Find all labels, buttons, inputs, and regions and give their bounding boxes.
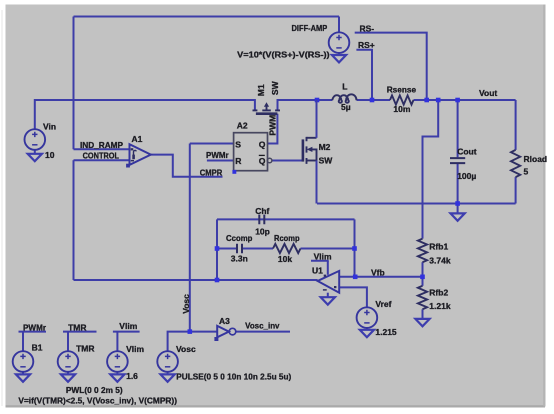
svg-text:5: 5 — [524, 166, 529, 176]
wire: Cout to ground rail — [457, 164, 459, 204]
svg-text:10: 10 — [45, 150, 55, 160]
wire: Rcomp to comp right vertical — [301, 248, 355, 250]
wire: Rfb2 to ground — [422, 309, 424, 318]
svg-text:5µ: 5µ — [341, 102, 351, 112]
inductor L — [332, 94, 356, 102]
svg-text:10k: 10k — [278, 254, 292, 264]
svg-text:SW: SW — [319, 156, 334, 166]
svg-text:PULSE(0 5 0 10n 10n 2.5u 5u): PULSE(0 5 0 10n 10n 2.5u 5u) — [176, 372, 291, 382]
svg-text:CONTROL: CONTROL — [83, 151, 119, 161]
ground below Vosc source — [161, 374, 175, 381]
svg-text:Cout: Cout — [457, 147, 477, 157]
wire: DIFF-AMP output top rail — [74, 16, 340, 18]
wire: A2 Qbar output to M2 gate — [272, 160, 303, 162]
wire: comp network left vertical — [216, 219, 218, 280]
wire: Vosc long vertical net — [189, 144, 191, 332]
wire: A3 output Vosc_inv stub — [236, 331, 290, 333]
svg-text:Vfb: Vfb — [371, 267, 385, 277]
ground below B1 — [16, 374, 30, 381]
ground below Rfb2 — [415, 319, 429, 326]
wire: U1 ground stem — [327, 293, 329, 297]
voltage source TMR — [58, 351, 79, 372]
svg-text:Vlim: Vlim — [119, 321, 137, 331]
svg-text:Rcomp: Rcomp — [274, 233, 300, 243]
svg-text:10p: 10p — [255, 227, 270, 237]
ground below U1 — [321, 297, 335, 304]
svg-text:10m: 10m — [393, 104, 410, 114]
svg-text:Vref: Vref — [375, 299, 391, 309]
wire: PWMr net stub above B1 — [19, 331, 47, 333]
svg-text:RS-: RS- — [360, 23, 375, 33]
junction: Vout sense tap — [436, 98, 441, 103]
wire: CONTROL input to A1 — [74, 159, 130, 161]
resistor Rload — [511, 150, 520, 177]
svg-text:IND_RAMP: IND_RAMP — [80, 140, 123, 150]
wire: Ccomp to Rcomp — [242, 248, 273, 250]
svg-text:B1: B1 — [32, 342, 43, 352]
svg-text:V=10*(V(RS+)-V(RS-)): V=10*(V(RS+)-V(RS-)) — [237, 51, 330, 60]
junction: comp to U1 output — [215, 278, 220, 283]
wire: power-stage ground rail — [317, 203, 516, 205]
svg-text:Ccomp: Ccomp — [226, 233, 252, 243]
wire: IND_RAMP input to A1 — [74, 148, 130, 150]
wire: U1 -input to Vref — [339, 287, 367, 307]
ground below TMR source — [61, 374, 75, 381]
svg-text:A3: A3 — [219, 316, 230, 326]
junction: Vfb divider node — [420, 275, 425, 280]
junction: comp right node — [352, 246, 357, 251]
svg-text:RS+: RS+ — [358, 40, 375, 50]
wire: Vref bottom stub — [366, 328, 368, 330]
voltage source Vin — [25, 129, 46, 150]
svg-text:SW: SW — [270, 80, 280, 95]
wire: Vfb node to Rfb2 — [422, 277, 424, 286]
svg-text:100µ: 100µ — [457, 171, 476, 181]
voltage source Vlim — [107, 351, 128, 372]
wire: left vertical to IND_RAMP — [73, 17, 75, 150]
svg-text:Vin: Vin — [43, 121, 56, 131]
wire: Vosc source bottom stub — [167, 372, 169, 374]
wire: ground rail stub to ground symbol — [457, 204, 459, 214]
svg-text:M2: M2 — [319, 142, 331, 152]
svg-text:1.215: 1.215 — [375, 327, 397, 337]
wire: TMR net stub — [63, 331, 97, 333]
ground below Vin — [28, 154, 42, 161]
svg-text:1.6: 1.6 — [126, 371, 138, 381]
wire: M1 source pin — [277, 99, 279, 110]
junction: Vosc net tap — [188, 329, 193, 334]
svg-text:A1: A1 — [132, 134, 143, 144]
wire: Vlim stub down to U1 top — [327, 261, 329, 275]
svg-text:Vout: Vout — [479, 88, 497, 98]
wire: Vosc source to A3 input — [168, 332, 218, 351]
wire: B1 top pin — [22, 332, 24, 351]
svg-text:PWL(0 0 2m 5): PWL(0 0 2m 5) — [66, 385, 123, 395]
op-amp A1 — [130, 144, 151, 165]
svg-text:R: R — [235, 156, 242, 166]
resistor Rfb2 — [418, 286, 427, 310]
voltage source DIFF-AMP E1 — [329, 32, 350, 53]
svg-text:Rfb2: Rfb2 — [429, 287, 448, 297]
ground below Vlim source — [110, 374, 124, 381]
junction: ground rail — [455, 201, 460, 206]
wire: Vout down to Cout — [457, 100, 459, 157]
junction: M2 drain on rail — [315, 98, 320, 103]
svg-text:Vosc_inv: Vosc_inv — [245, 321, 280, 331]
behavioral source B1 — [13, 351, 34, 372]
resistor Rsense — [390, 95, 414, 104]
wire: Rload to ground rail — [515, 177, 517, 203]
junction: Rsense/RS- node — [424, 98, 429, 103]
svg-text:Vosc: Vosc — [181, 294, 191, 314]
svg-text:Vlim: Vlim — [126, 344, 144, 354]
svg-text:CMPR: CMPR — [200, 167, 223, 177]
svg-text:Rsense: Rsense — [387, 84, 417, 94]
voltage source Vref — [357, 307, 378, 328]
wire: Vlim net stub — [113, 331, 140, 333]
wire: RS+ net stub down to L/Rsense node — [356, 50, 372, 100]
wire: PWMr net stub to A2 R input — [207, 160, 234, 162]
wire: Rfb1 to Vfb node — [422, 262, 424, 277]
svg-text:S: S — [235, 140, 241, 150]
op-amp U1 — [318, 271, 340, 293]
wire: Vin to M1 drain rail — [35, 100, 255, 129]
wire: Vin bottom stub — [34, 150, 36, 154]
wire: Vosc to A2 S input — [190, 143, 234, 145]
wire: DIFF-AMP top pin — [338, 17, 340, 33]
svg-text:1.21k: 1.21k — [429, 301, 451, 311]
capacitor Cout — [450, 158, 465, 163]
svg-text:Chf: Chf — [255, 206, 269, 216]
capacitor Ccomp — [237, 244, 242, 254]
wire: Vlim source top pin — [116, 332, 118, 351]
svg-text:TMR: TMR — [76, 343, 94, 353]
svg-text:PWM: PWM — [268, 115, 278, 136]
svg-text:Rfb1: Rfb1 — [429, 241, 448, 251]
transistor M2 — [303, 137, 317, 164]
wire: TMR source bottom stub — [67, 372, 69, 374]
junction: Cout top — [455, 98, 460, 103]
svg-text:Vosc: Vosc — [176, 344, 196, 354]
junction: comp to Vfb — [353, 275, 358, 280]
wire: DIFF-AMP bottom stub — [338, 53, 340, 55]
svg-text:TMR: TMR — [68, 322, 86, 332]
wire: Vout down to Rload — [515, 100, 517, 150]
svg-text:A2: A2 — [237, 121, 248, 131]
svg-text:Rload: Rload — [524, 154, 548, 164]
svg-text:U1: U1 — [312, 265, 323, 275]
svg-text:Q: Q — [259, 156, 266, 166]
wire: RS- net stub down to Rsense right — [355, 33, 427, 100]
wire: Vfb from U1 +input — [339, 276, 422, 278]
ground below DIFF-AMP — [332, 55, 346, 62]
wire: Chf top run — [217, 218, 355, 220]
wire: M2 drain to SW rail — [316, 100, 318, 138]
wire: CONTROL left vertical — [73, 160, 75, 280]
wire: A1 output to CMPR net stub — [151, 155, 223, 177]
svg-text:L: L — [342, 82, 347, 92]
junction: L/Rsense/RS+ node — [370, 98, 375, 103]
voltage source Vosc — [157, 351, 178, 372]
wire: M2 source to ground rail — [316, 161, 318, 204]
svg-text:PWMr: PWMr — [23, 322, 47, 332]
ground below Vref — [360, 330, 374, 337]
wire: M1 drain pin — [254, 99, 256, 110]
resistor Rfb1 — [418, 239, 427, 263]
wire: TMR source top pin — [67, 332, 69, 351]
svg-text:M1: M1 — [256, 84, 266, 96]
wire: M1 source to inductor L — [278, 99, 333, 101]
resistor Rcomp — [273, 244, 301, 253]
wire: comp left to Ccomp — [217, 248, 237, 250]
wire: Vlim source bottom stub — [116, 372, 118, 374]
capacitor Chf — [259, 215, 264, 225]
wire: comp network right vertical to Vfb — [354, 219, 356, 276]
junction: comp left node — [215, 246, 220, 251]
ground on power rail — [451, 213, 465, 220]
svg-text:3.74k: 3.74k — [429, 255, 451, 265]
svg-text:Vlim: Vlim — [314, 251, 332, 261]
svg-text:Q: Q — [259, 140, 266, 150]
wire: L to Rsense — [357, 99, 390, 101]
svg-text:DIFF-AMP: DIFF-AMP — [292, 23, 328, 33]
wire: B1 bottom stub — [22, 372, 24, 374]
flip-flop A2 — [234, 133, 268, 171]
wire: A2 Q output up to M1 gate — [268, 114, 278, 144]
svg-text:PWMr: PWMr — [206, 150, 229, 160]
wire: Vout sense down to Rfb1 — [423, 100, 439, 239]
inverter A3 — [217, 326, 229, 337]
svg-text:3.3n: 3.3n — [231, 253, 248, 263]
wire: Rsense to Vout corner — [414, 99, 516, 101]
wire: Vlim net stub at U1 — [311, 260, 329, 262]
svg-text:V=if(V(TMR)<2.5, V(Vosc_inv),: V=if(V(TMR)<2.5, V(Vosc_inv), V(CMPR)) — [18, 396, 177, 406]
wire: U1 output to CONTROL run — [74, 279, 318, 281]
